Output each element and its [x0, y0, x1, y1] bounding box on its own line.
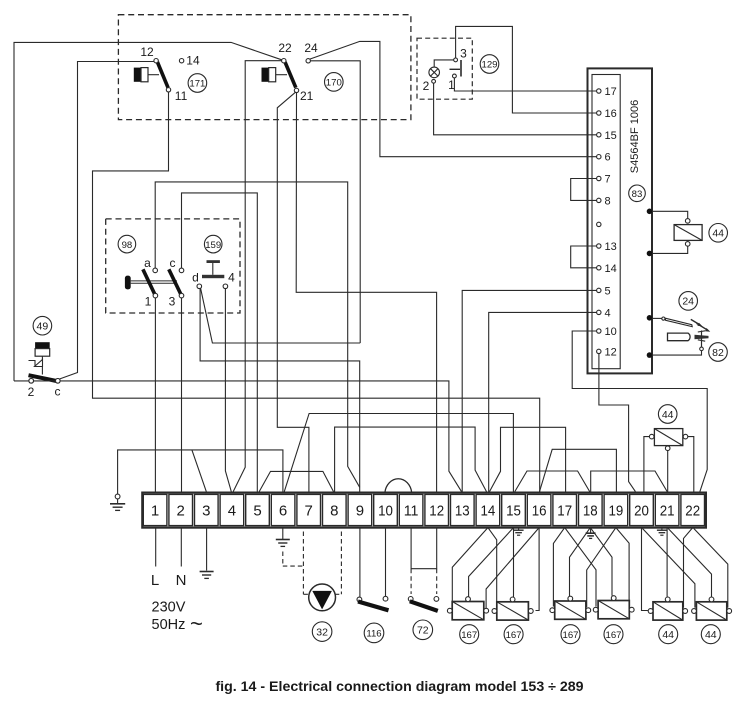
wire relay44 mid bottom to terminal 21: [667, 451, 669, 492]
svg-text:3: 3: [202, 503, 210, 520]
svg-text:10: 10: [605, 326, 617, 338]
wire terminal 16 to terminal 19 bridge: [540, 449, 617, 491]
wire terminal 18 to terminal 21 bridge: [591, 471, 668, 492]
control unit 83 outer box: [588, 68, 653, 373]
ref circle 44 V5: [659, 625, 678, 644]
svg-text:4: 4: [228, 503, 236, 520]
wire relay170-21 diag to terminal 7: [277, 92, 309, 492]
svg-text:116: 116: [366, 629, 381, 640]
wire sensor 82 to dot D: [652, 351, 702, 355]
ref circle 49: [33, 316, 52, 335]
svg-text:5: 5: [253, 503, 261, 520]
switch 98 lever 1: [143, 269, 155, 295]
wire terminal 19 to valve V4 right: [616, 528, 629, 607]
svg-text:22: 22: [278, 41, 292, 55]
ref circle 82: [709, 343, 728, 362]
svg-text:44: 44: [662, 629, 674, 641]
svg-text:1: 1: [145, 295, 152, 309]
relay 44 mid left terminal: [649, 434, 654, 439]
wire terminal 16 to valve V1 right: [486, 528, 539, 609]
ref circle 167 a: [460, 625, 479, 644]
wire relay44 mid right to terminal 22: [688, 437, 694, 492]
svg-text:c: c: [55, 385, 61, 399]
ref circle 44 upper: [709, 224, 728, 243]
jumper bracket pins 7-8: [571, 179, 597, 201]
junction dot B: [647, 251, 653, 257]
wire terminal 21 to valve V5 top: [666, 528, 668, 597]
dashed box lamp/switch 129: [417, 38, 472, 99]
svg-text:8: 8: [330, 503, 338, 520]
svg-text:167: 167: [461, 630, 477, 641]
wire terminal 18 to valve V3 top: [570, 528, 591, 597]
pins of control unit: [571, 86, 728, 361]
wire terminal 14 to valve V1 left: [452, 528, 488, 607]
svg-text:32: 32: [316, 627, 328, 639]
node 98-1: [153, 293, 158, 298]
relay 170 contact 21: [294, 88, 298, 92]
switch 98 link bars: [131, 281, 177, 283]
svg-text:9: 9: [356, 503, 364, 520]
pump dashed box: [303, 532, 341, 595]
wire 98-3 to terminal 2: [181, 298, 183, 492]
svg-text:N: N: [176, 572, 187, 589]
wire relay170-24 horiz riser to d-bus: [310, 61, 360, 343]
svg-text:49: 49: [37, 321, 49, 333]
svg-text:167: 167: [562, 630, 578, 641]
switch 72 wires: [411, 528, 437, 569]
valve V1: [452, 602, 484, 620]
wire terminal 19 to valve V3 right: [587, 528, 616, 607]
svg-text:82: 82: [712, 347, 724, 359]
spark symbol: [691, 319, 711, 331]
svg-text:15: 15: [605, 130, 617, 142]
node 129-2: [432, 79, 436, 83]
switch 98 handle: [125, 276, 131, 290]
wire 159-d diag to d-bus: [201, 288, 361, 343]
ref circle 72: [413, 620, 433, 640]
pin 5: [597, 285, 611, 297]
terminal boxes 1-22: [143, 494, 704, 525]
svg-text:L: L: [151, 572, 159, 589]
control unit inner box: [592, 75, 620, 369]
node 98-c: [179, 268, 184, 273]
svg-text:2: 2: [423, 79, 430, 93]
wire relay44 mid left to terminal 20: [644, 437, 650, 492]
switch 116 wires: [359, 528, 361, 597]
relay 44 upper wire bottom: [652, 246, 688, 253]
wire relay170-21 via bus to pin5 riser: [296, 93, 436, 492]
ref circle 167 b: [504, 625, 523, 644]
node 159-4: [223, 284, 228, 289]
svg-text:12: 12: [605, 346, 617, 358]
wire terminal 15 to valve V2 top: [513, 528, 515, 597]
sensor 82 terminal: [700, 347, 704, 351]
svg-text:24: 24: [682, 296, 694, 308]
wire terminal 15 to terminal 18 bridge: [515, 471, 590, 492]
svg-text:83: 83: [632, 189, 643, 200]
jumper bracket pins 13-14: [571, 246, 597, 268]
svg-text:fig. 14 - Electrical connectio: fig. 14 - Electrical connection diagram …: [215, 679, 583, 695]
relay 171 contact 14: [179, 59, 183, 63]
wire relay170-22 to terminal 4: [233, 61, 281, 492]
valve V3: [555, 601, 586, 619]
relay 171 coil: [134, 68, 159, 82]
wire 129-2 to pin 15: [434, 83, 597, 135]
thermostat 49 lever: [29, 375, 57, 381]
pin 7: [597, 174, 611, 186]
svg-text:44: 44: [662, 409, 674, 421]
dashed box switches 98/159: [106, 219, 240, 313]
svg-text:44: 44: [705, 629, 717, 641]
svg-text:21: 21: [300, 89, 314, 103]
svg-text:230V: 230V: [152, 600, 186, 616]
node 49-2: [29, 379, 34, 384]
ref circle 44 mid: [658, 405, 677, 424]
wire: thermostat c riser to relay 171 contact 12: [60, 62, 155, 380]
svg-text:7: 7: [305, 503, 313, 520]
wire terminal 20 to valve V5 left: [642, 528, 648, 611]
svg-text:3: 3: [169, 295, 176, 309]
wire pin 12 to terminal 20: [599, 354, 636, 492]
svg-text:13: 13: [605, 241, 617, 253]
jumper arc terminals 10-11: [385, 479, 412, 493]
ground under terminal 3: [200, 572, 214, 579]
node 98-a: [153, 268, 158, 273]
wire thermostat bus A to terminal 13: [14, 381, 462, 492]
wire terminal 14 to terminal 17 bridge: [490, 427, 566, 491]
wire 159-d vert bus to terminal 9: [200, 289, 360, 492]
thermostat 49 body: [35, 342, 50, 374]
terminal strip outer frame: [142, 493, 706, 528]
wire 129-1 to pin 17: [454, 78, 596, 91]
wire terminal 14 to valve V2 left: [488, 528, 497, 607]
pin 17: [597, 86, 617, 98]
wire 159-4 to terminal 4: [225, 289, 231, 492]
svg-text:22: 22: [685, 503, 700, 520]
svg-text:19: 19: [609, 503, 624, 520]
wire: top bus from left riser to relay 170 contact 22: [14, 42, 282, 381]
wire pin 4 riser to terminal 14: [489, 312, 597, 491]
switch bar 129: [450, 60, 462, 77]
svg-text:10: 10: [378, 503, 393, 520]
svg-text:2: 2: [177, 503, 185, 520]
relay 44 upper bottom terminal: [685, 242, 690, 247]
svg-text:20: 20: [634, 503, 649, 520]
pin 6: [597, 152, 611, 164]
push-button 159 symbol: [202, 260, 224, 278]
svg-text:18: 18: [583, 503, 598, 520]
svg-text:6: 6: [279, 503, 287, 520]
junction dot C: [647, 315, 653, 321]
pump 32: [309, 584, 336, 611]
svg-text:44: 44: [712, 228, 724, 240]
wire 98-1 to terminal 1: [154, 298, 156, 492]
svg-text:4: 4: [228, 271, 235, 285]
ref circle 170: [325, 73, 344, 92]
ignition electrode 24: [652, 317, 692, 327]
relay 170 contact 22: [282, 59, 286, 63]
wire branch to terminal 3: [192, 450, 206, 492]
switch 116 lever: [358, 602, 389, 611]
wire terminal 21 to valve V6 top: [668, 529, 711, 597]
wire terminal 17 to valve V3 left: [553, 528, 564, 607]
node 49-c overlay: [56, 379, 61, 384]
svg-text:8: 8: [605, 195, 611, 207]
relay 171 lever (switch arm): [157, 62, 168, 88]
ref circle 44 V6: [701, 625, 720, 644]
ref circle 32: [312, 622, 332, 642]
svg-text:7: 7: [605, 174, 611, 186]
wire 129-3 to pin 16: [456, 26, 597, 113]
svg-text:d: d: [192, 271, 199, 285]
svg-text:11: 11: [404, 503, 419, 520]
relay 44 mid body: [654, 429, 682, 446]
wire pin 10 to terminal 22: [572, 331, 707, 492]
svg-text:12: 12: [140, 45, 154, 59]
wire terminal 15 to valve V1 top: [469, 528, 514, 597]
ref circle 159: [204, 235, 222, 253]
wire L stub terminal 1: [155, 528, 157, 567]
wire terminal 6 to terminal 12 bus: [284, 414, 513, 492]
wire terminal 8 to terminal 14 bus: [335, 427, 487, 492]
ref circle 24 electrode: [679, 292, 698, 311]
ref circle 83: [629, 185, 646, 202]
junction dot D: [647, 352, 653, 358]
wire pin 5 riser to terminal 13: [462, 290, 596, 491]
svg-text:1: 1: [151, 503, 159, 520]
ref circle 116: [364, 623, 384, 643]
valve V2: [497, 602, 529, 620]
dashed enclosure box (relays 171/170): [118, 15, 411, 120]
pin 15: [597, 130, 617, 142]
svg-text:167: 167: [605, 630, 621, 641]
switch 116 contacts: [357, 597, 362, 602]
thermostat 49 reset contact: [29, 360, 43, 367]
ref circle 167 d: [604, 625, 623, 644]
svg-text:72: 72: [417, 625, 429, 637]
wire terminal 22 to valve V6 right: [694, 529, 728, 608]
pin 16: [597, 108, 617, 120]
relay 170 contact 24: [306, 59, 310, 63]
ground left of strip: [110, 494, 125, 510]
wire lamp to 3: [434, 60, 454, 67]
wire terminal 20 to valve V6 left: [643, 529, 695, 608]
wire terminal 17 to valve V4 left: [565, 528, 596, 607]
svg-text:14: 14: [481, 503, 496, 520]
svg-text:50Hz: 50Hz: [152, 617, 186, 633]
node 159-d: [197, 284, 202, 289]
ref circle 98: [118, 235, 136, 253]
flame sensor 82 body: [668, 331, 709, 347]
wire 98-a bus to terminal 9: [155, 182, 360, 487]
svg-text:129: 129: [481, 60, 497, 71]
valve V5: [653, 602, 683, 620]
pin 13: [597, 241, 617, 253]
ref circle 171: [188, 74, 207, 93]
svg-text:a: a: [144, 256, 151, 270]
relay 44 upper top terminal: [685, 219, 690, 224]
wire terminal 18 to valve V4 top: [590, 528, 612, 596]
wire terminal 22 to valve V5 right: [684, 528, 693, 608]
ground under 21: [657, 528, 667, 536]
ground under 18: [586, 528, 596, 539]
svg-text:c: c: [170, 256, 176, 270]
relay 44 mid right terminal: [683, 434, 688, 439]
wire terminal 5 to terminal 8 bridge: [259, 471, 333, 491]
switch 98 lever 2: [169, 269, 182, 295]
relay 171 contact 11: [166, 88, 170, 92]
valve V4: [598, 601, 629, 619]
node 98-3: [179, 293, 184, 298]
valve V6: [696, 602, 726, 620]
svg-text:4: 4: [605, 307, 611, 319]
node 129-1: [453, 74, 457, 78]
wire earth stub terminal 3: [206, 528, 208, 571]
node 129-3: [454, 58, 458, 62]
relay 44 upper wire top: [652, 211, 688, 218]
svg-text:15: 15: [506, 503, 521, 520]
wire terminal 16 to valve V2 right: [536, 528, 540, 611]
svg-text:5: 5: [605, 285, 611, 297]
relay 171 contact 12: [154, 59, 158, 63]
relay 44 upper body: [674, 225, 702, 241]
svg-text:12: 12: [429, 503, 444, 520]
svg-text:16: 16: [605, 108, 617, 120]
junction dot A: [647, 209, 653, 215]
lamp symbol 129: [429, 67, 440, 78]
ground above pump: [276, 528, 290, 547]
svg-text:16: 16: [532, 503, 547, 520]
svg-text:14: 14: [186, 54, 200, 68]
ref circle 129: [480, 55, 499, 74]
wire earth node to terminals 3 and 6: [118, 450, 283, 494]
pin nc: [597, 222, 601, 226]
relay 170 coil: [262, 68, 288, 82]
pin 4: [597, 307, 611, 319]
pin 10: [597, 326, 617, 338]
switch 72 lever: [410, 601, 438, 611]
pump ground dashed: [283, 552, 304, 567]
svg-text:3: 3: [460, 47, 467, 61]
wire N stub terminal 2: [180, 528, 182, 567]
switch 72 contacts: [408, 597, 413, 602]
svg-text:6: 6: [605, 152, 611, 164]
node 49-c: [56, 379, 61, 384]
svg-text:171: 171: [189, 79, 205, 90]
svg-text:21: 21: [660, 503, 675, 520]
node 49-2 overlay: [29, 379, 34, 384]
terminal numbers: [151, 503, 700, 520]
svg-text:11: 11: [175, 89, 188, 103]
svg-text:S4564BF 1006: S4564BF 1006: [629, 100, 641, 173]
ground under 15/16: [514, 528, 524, 536]
svg-text:159: 159: [205, 240, 221, 251]
svg-text:2: 2: [28, 385, 35, 399]
pin 8: [597, 195, 611, 207]
pin 14: [597, 263, 617, 275]
svg-text:167: 167: [506, 630, 522, 641]
svg-text:170: 170: [326, 78, 342, 89]
svg-text:24: 24: [304, 41, 318, 55]
wire relay171-11 riser and bus B to pin5 riser: [93, 92, 540, 492]
relay 170 lever (switch arm): [285, 62, 296, 88]
svg-text:17: 17: [605, 86, 617, 98]
svg-text:14: 14: [605, 263, 617, 275]
svg-text:98: 98: [122, 240, 133, 251]
svg-text:13: 13: [455, 503, 470, 520]
ref circle 167 c: [561, 625, 580, 644]
pin 12: [597, 346, 617, 358]
svg-text:17: 17: [557, 503, 572, 520]
relay 44 mid bottom terminal: [665, 446, 670, 451]
wire relay170-24 diag riser to pin 6: [310, 41, 597, 156]
svg-text:~: ~: [190, 611, 203, 636]
wire 98-c bus to terminal 5: [182, 193, 258, 492]
